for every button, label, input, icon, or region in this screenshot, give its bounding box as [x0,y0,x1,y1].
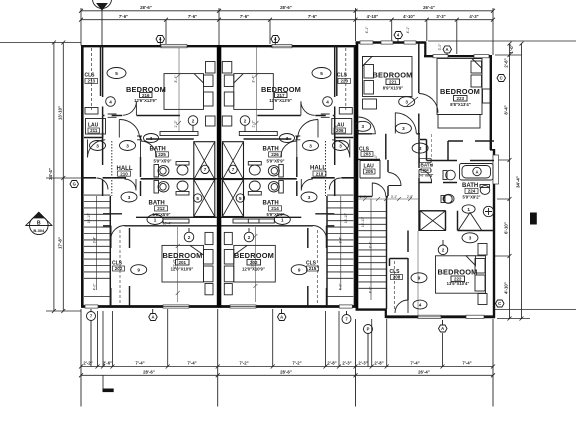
svg-text:3'-4": 3'-4" [339,236,343,244]
B-304 triangle filled apex [33,212,44,218]
top row1 ticks [79,9,495,13]
u3 oval3 leader [407,97,418,106]
bottom dim row2 line [81,374,493,376]
svg-text:4'-10": 4'-10" [367,14,379,19]
u2 circ2 [240,116,250,126]
svg-text:16'-10": 16'-10" [87,212,91,223]
u1 oval3 bath [144,134,159,143]
toilet bath224 [480,185,490,195]
svg-text:224: 224 [468,189,476,194]
unit3 top wall B [424,55,492,57]
svg-text:26'-4": 26'-4" [423,5,435,10]
vanity bath212 u1 [163,219,189,223]
u1 circ2 bottom [184,232,194,242]
svg-text:10'-4": 10'-4" [163,222,172,226]
svg-text:28'-6": 28'-6" [280,5,292,10]
u3 oval3 bedroomdoor [395,123,411,133]
svg-text:P: P [367,327,370,332]
tub bath224 [460,164,494,181]
closet222 walls [420,211,494,231]
svg-text:7'-4": 7'-4" [462,361,471,366]
door arc bedroom221 [395,113,416,134]
unit3 bottom wall stair bay [356,308,387,310]
u1 circ4 [106,97,116,107]
u3 oval3 door223 [399,97,415,107]
svg-text:A: A [445,47,448,52]
svg-text:4: 4 [419,302,422,307]
svg-text:5'0"X6'2": 5'0"X6'2" [419,174,434,178]
toilet hall bath [441,194,454,203]
footboard room223 [438,115,480,129]
svg-text:9: 9 [418,276,421,281]
svg-text:A: A [151,315,154,320]
hexagon tag leader verticals [153,37,447,325]
party wall second leaf [219,45,221,308]
u3 oval3 lau [412,143,428,153]
svg-text:13'-10": 13'-10" [58,106,63,120]
section marker B-305 top circle [93,0,112,9]
door arc hall-lau [388,173,401,186]
svg-text:9: 9 [137,268,140,273]
unit3 interior dim line y199 [358,197,418,201]
svg-text:BEDROOM: BEDROOM [163,251,203,260]
right dim col inner vertical [509,44,511,319]
svg-text:BATH: BATH [421,163,434,168]
svg-text:CLS: CLS [85,73,96,79]
svg-text:2'-8": 2'-8" [327,361,336,366]
svg-text:2'-8": 2'-8" [407,195,413,199]
svg-text:4'-1": 4'-1" [365,26,369,34]
unit1 top bedroom window [161,45,187,48]
svg-text:7'-6": 7'-6" [119,14,128,19]
interior dim rotated texts [173,75,256,269]
svg-text:4: 4 [109,99,112,104]
u2 circ4 [323,97,333,107]
circle callout below unit3 [364,325,373,334]
hexagon C right lower [496,300,505,307]
svg-text:2: 2 [248,235,251,240]
svg-text:C: C [498,301,501,306]
u2 oval3 bath [280,134,295,143]
svg-text:3'-1": 3'-1" [391,195,397,199]
hexagon 4 unit2 top [271,36,280,43]
svg-text:3: 3 [405,100,408,105]
svg-text:1: 1 [281,217,284,222]
nightstand room222 bottom [478,294,487,305]
svg-text:201: 201 [178,260,186,265]
svg-text:3: 3 [126,143,129,148]
svg-text:7: 7 [232,167,235,172]
svg-text:220: 220 [340,79,348,84]
svg-text:3'-4": 3'-4" [369,241,373,249]
svg-text:4'-0": 4'-0" [93,283,97,291]
hexagon 4 unit3 top [394,32,403,39]
bedroom221/223 partition [418,43,420,134]
top dim row1 line [81,10,493,12]
dimension texts right col rotated [504,44,521,293]
hall top walls unit3 [358,196,388,198]
svg-text:211: 211 [90,128,98,133]
hexagon C right upper [497,75,506,82]
u1 circ2 [188,116,198,126]
left extension horizontals [0,43,81,312]
svg-text:208: 208 [393,275,401,280]
svg-text:4'-0": 4'-0" [339,283,343,291]
lavatory hall bath upper [443,170,455,180]
svg-text:2'-3": 2'-3" [358,361,367,366]
svg-text:2: 2 [188,235,191,240]
top dim row2 line [81,19,493,21]
unit3 interior dim texts [360,195,413,199]
u1 circ5b [194,194,202,202]
lau205 box [360,161,380,179]
svg-text:28'-6": 28'-6" [140,5,152,10]
svg-text:7'-6": 7'-6" [308,14,317,19]
cls208 dashed rod [393,261,395,311]
svg-text:1'-2": 1'-2" [174,120,178,128]
svg-text:3: 3 [362,124,365,129]
unit3 step vertical top [424,42,426,57]
u1 oval3 c [121,192,137,202]
circled callouts below building [87,309,373,367]
black scan mark right [530,213,537,225]
svg-text:3: 3 [419,146,422,151]
hall205 east wall [387,160,389,196]
svg-text:2: 2 [442,248,445,253]
svg-text:BEDROOM: BEDROOM [234,251,274,260]
svg-text:8'-4": 8'-4" [504,105,509,114]
svg-text:8'9"X13'9": 8'9"X13'9" [383,86,403,91]
svg-text:3: 3 [128,195,131,200]
svg-text:5'9"X5'9": 5'9"X5'9" [266,159,284,164]
u2 oval3 c [301,192,317,202]
hexagon A bottom mid window [278,314,287,321]
svg-text:8'8"X13'4": 8'8"X13'4" [450,102,470,107]
unit2 top bedroom window [272,45,292,48]
svg-text:4'-10": 4'-10" [504,282,509,294]
bed room221 [363,57,413,97]
svg-text:3'-0": 3'-0" [438,43,442,51]
hexagon tag numbers [73,33,503,332]
svg-text:212: 212 [157,206,165,211]
svg-text:BEDROOM: BEDROOM [438,268,478,277]
u1 oval3 b [120,141,136,151]
svg-text:3: 3 [286,136,289,141]
svg-text:3'-4": 3'-4" [174,75,178,83]
svg-text:202: 202 [115,266,123,271]
svg-text:16'-10": 16'-10" [344,212,348,223]
svg-text:34'-4": 34'-4" [516,176,521,188]
u3 oval4 [413,300,427,309]
dresser room223 [483,89,491,103]
svg-text:34'-4": 34'-4" [48,168,53,180]
door arc bath224 [419,170,432,183]
black scan mark bottom left [103,389,114,393]
u2 circ7 [229,165,237,173]
svg-text:3: 3 [309,143,312,148]
dimension texts bottom [83,361,471,375]
svg-text:2: 2 [244,118,247,123]
svg-text:6'-10": 6'-10" [504,222,509,234]
unit3 window dim texts [365,26,442,51]
left dim col outer vertical [53,43,55,312]
svg-text:221: 221 [389,80,397,85]
bottom long extension verticals [81,309,493,407]
bath224 north wall [420,140,494,161]
u2 oval5 [312,68,331,79]
unit3 hall bath vanity [420,159,432,163]
svg-text:A: A [475,169,478,174]
bedroom223 south walls [448,141,494,161]
bath224 west block [419,134,457,231]
callout numbers [96,71,472,308]
svg-text:B: B [37,220,41,226]
u2 oval3 b [303,141,319,151]
svg-text:7'-4": 7'-4" [135,361,144,366]
u1 circ7 [201,165,209,173]
circle callout below unit1 [87,312,96,321]
unit2 mirrored render [218,45,356,308]
bottom row1 ticks [79,365,495,369]
svg-text:3: 3 [96,143,99,148]
unit3 right wall lower [493,149,495,318]
cls203 walls [358,134,386,160]
unit3 left wall [356,42,359,311]
door arc cls203 [359,117,376,134]
B-304 triangle outline [26,212,52,225]
unit2 bottom bedroom window [230,305,256,308]
svg-text:13'5"X10'4": 13'5"X10'4" [447,281,470,286]
unit1 render [81,45,219,308]
svg-text:28'-6": 28'-6" [143,369,155,374]
svg-text:7'-2": 7'-2" [292,361,301,366]
svg-text:5: 5 [320,71,323,76]
svg-text:3'-3": 3'-3" [436,14,445,19]
svg-text:1'-2": 1'-2" [252,120,256,128]
svg-text:2'-6": 2'-6" [504,58,509,67]
unit3 top wall A [356,41,426,43]
stair east wall unit3 [386,196,388,309]
svg-text:2'-8": 2'-8" [374,361,383,366]
svg-text:2'-6": 2'-6" [103,361,112,366]
bedroom222 west wall [407,231,409,301]
svg-text:203: 203 [363,152,371,157]
svg-text:7'-6": 7'-6" [188,14,197,19]
dresser room221 [363,99,377,109]
u2 oval9 [291,265,307,275]
svg-text:3'-4": 3'-4" [93,236,97,244]
svg-text:2: 2 [192,118,195,123]
unit3 bottom wall windows [418,315,484,318]
bottom dim row1 line [81,366,493,368]
hexagon A unit3 top [443,46,452,53]
bottom short extension verticals [98,309,443,389]
bed room223 [437,59,482,115]
svg-text:BEDROOM: BEDROOM [373,71,413,80]
svg-text:4: 4 [326,99,329,104]
unit3 interior dim vertical bedroom222 [418,134,432,316]
unit3 right wall window [493,155,499,184]
u1 oval3 a [90,141,106,151]
nightstand room222 top [478,244,487,256]
unit3 top wall B windows [433,55,489,58]
svg-text:12'0"X10'9": 12'0"X10'9" [242,266,265,271]
unit3 top wall A windows [360,41,416,44]
svg-text:C: C [500,76,503,81]
svg-text:9: 9 [298,268,301,273]
svg-text:12'6"X13'9": 12'6"X13'9" [269,98,292,103]
hexagon A bottom left window [149,314,158,321]
svg-text:4'-1": 4'-1" [406,26,410,34]
svg-text:7'-4": 7'-4" [410,361,419,366]
svg-text:1: 1 [467,207,470,212]
svg-text:7'-2": 7'-2" [239,361,248,366]
svg-text:A: A [280,315,283,320]
B-305 pointer triangle [97,4,107,11]
u3 circ2 bed222 [438,245,448,255]
u3 oval3 bed222 [462,233,478,243]
u3 oval3 cls [355,121,371,131]
door arc unit3 hall top [372,183,386,197]
svg-text:BEDROOM: BEDROOM [440,87,480,96]
svg-text:7'-6": 7'-6" [240,14,249,19]
svg-text:5'9"X9'2": 5'9"X9'2" [462,195,480,200]
u2 circ5b [236,194,244,202]
closet222 bifold diagonals [459,213,482,231]
svg-text:B-304: B-304 [33,228,45,233]
svg-text:5: 5 [196,196,199,201]
svg-text:202: 202 [250,260,258,265]
hexagon A bottom right window [439,325,448,332]
svg-text:A: A [441,326,444,331]
stairs unit3 [359,199,387,300]
cls208 walls [390,259,409,267]
svg-text:226: 226 [271,152,279,157]
left col ticks [52,41,65,314]
bed room222 [436,256,486,293]
svg-text:4'-3": 4'-3" [469,14,478,19]
svg-text:4'-10": 4'-10" [403,14,415,19]
right col ticks [508,42,524,321]
svg-text:26'-4": 26'-4" [418,369,430,374]
sink bath224 [483,206,493,216]
svg-text:225: 225 [158,152,166,157]
svg-text:7: 7 [204,167,207,172]
right dim col outer vertical [521,44,523,319]
u3 oval9 [411,273,427,283]
door arc bedroom223 [419,94,438,113]
right extension horizontals [428,41,576,319]
svg-text:3: 3 [339,143,342,148]
svg-text:1: 1 [154,217,157,222]
u3 oval1 [462,205,475,213]
svg-text:215: 215 [309,266,317,271]
svg-text:2'-3": 2'-3" [342,361,351,366]
u1 oval9 [131,265,147,275]
svg-text:28'-6": 28'-6" [280,369,292,374]
svg-text:205: 205 [365,169,373,174]
unit3 right wall [490,55,492,150]
stair bay rotated texts [87,154,378,294]
svg-text:210: 210 [120,171,128,176]
svg-text:206: 206 [336,128,344,133]
section line B-305 vertical [101,6,103,46]
hexagon tags [70,32,506,333]
section marker B-304 circle [30,216,49,235]
svg-text:3: 3 [308,195,311,200]
closet222 x-box [420,211,446,231]
u2 oval3 a [333,141,349,151]
svg-text:223: 223 [456,96,464,101]
svg-text:CLS: CLS [337,73,348,79]
bedroom221 south wall [358,131,420,134]
hexagon 4 unit1 top [156,36,165,43]
svg-text:3'-4": 3'-4" [252,75,256,83]
top extension verticals [81,8,493,55]
u3 circ4 bath [444,195,452,203]
svg-text:5: 5 [239,196,242,201]
left dim col inner vertical [62,43,64,312]
svg-text:218: 218 [316,171,324,176]
hexagon G left [70,181,79,188]
unit3 bottom step vertical [385,309,387,318]
circle callout below unit2 [342,315,351,324]
svg-text:5'9"X5'9": 5'9"X5'9" [153,159,171,164]
svg-text:214: 214 [271,206,279,211]
dimension texts top [119,5,479,19]
door arc bedroom222 entry [395,300,408,313]
svg-text:3: 3 [402,126,405,131]
unit1 bottom bedroom window [163,305,189,308]
svg-text:12'6"X13'9": 12'6"X13'9" [134,98,157,103]
svg-text:204: 204 [423,169,429,173]
svg-text:7'-4": 7'-4" [187,361,196,366]
top row2 ticks [79,18,495,22]
u1 oval5 [107,68,126,79]
svg-text:5: 5 [115,71,118,76]
svg-text:213: 213 [87,79,95,84]
unit3 right wall step [490,149,495,151]
svg-text:G: G [73,182,76,187]
bottom row2 ticks [79,373,495,377]
dimension texts left col rotated [48,106,63,249]
unit3 bottom wall main [386,315,496,318]
svg-text:3: 3 [469,236,472,241]
svg-text:1'-0": 1'-0" [509,44,514,53]
vanity bath214 u2 [233,219,259,223]
svg-text:4'-0": 4'-0" [369,286,373,294]
svg-text:3: 3 [150,136,153,141]
svg-text:17'-8": 17'-8" [58,237,63,249]
interior dim lines bedrooms [176,48,259,303]
svg-text:1'-4": 1'-4" [360,195,366,199]
u2 circ2 bottom [244,232,254,242]
svg-text:12'0"X10'9": 12'0"X10'9" [171,266,194,271]
